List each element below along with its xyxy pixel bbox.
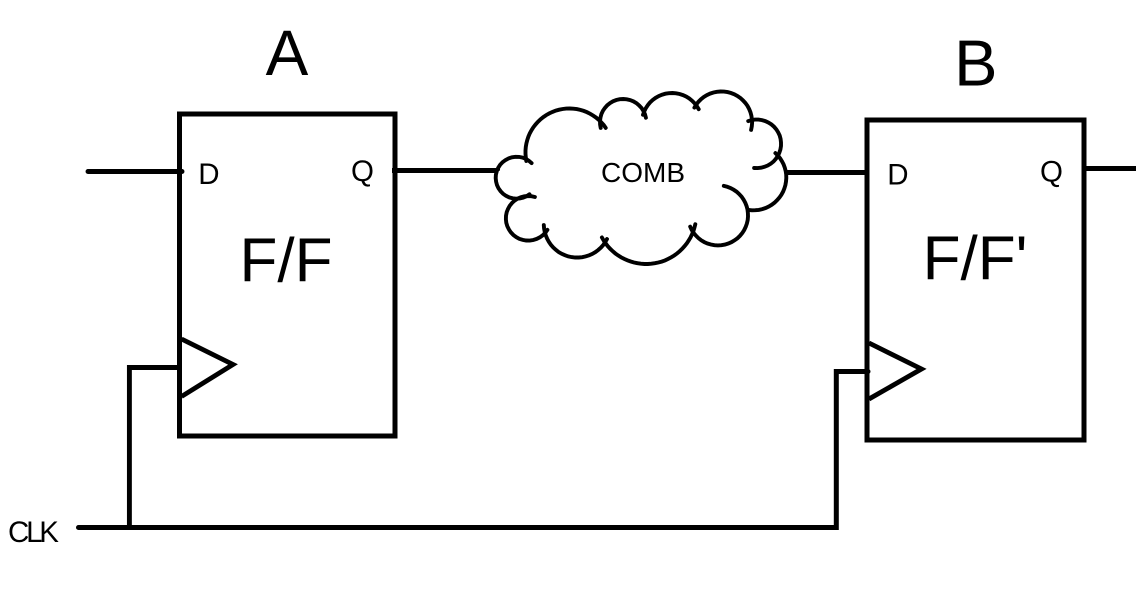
svg-text:CLK: CLK xyxy=(8,516,59,549)
svg-text:F/F': F/F' xyxy=(923,225,1028,294)
svg-text:COMB: COMB xyxy=(601,157,685,188)
svg-text:D: D xyxy=(887,159,908,192)
svg-text:Q: Q xyxy=(351,155,374,188)
wire: CLK branch to A clock xyxy=(129,368,182,528)
svg-text:B: B xyxy=(954,27,997,100)
clock input triangle of B xyxy=(869,343,922,399)
combinational logic cloud COMB xyxy=(496,92,787,265)
svg-text:A: A xyxy=(266,17,309,89)
wire: input to A.D xyxy=(88,169,182,174)
svg-text:F/F: F/F xyxy=(240,227,333,296)
svg-text:D: D xyxy=(198,158,219,191)
flip-flop B box xyxy=(867,120,1084,440)
wire: COMB to B.D xyxy=(785,170,869,175)
flip-flop A box xyxy=(180,114,396,436)
svg-text:Q: Q xyxy=(1040,156,1063,189)
wire: A.Q to COMB xyxy=(392,168,500,173)
clock input triangle of A xyxy=(182,339,234,397)
wire: B.Q output xyxy=(1084,166,1136,171)
wire: CLK horizontal bus xyxy=(79,372,869,528)
